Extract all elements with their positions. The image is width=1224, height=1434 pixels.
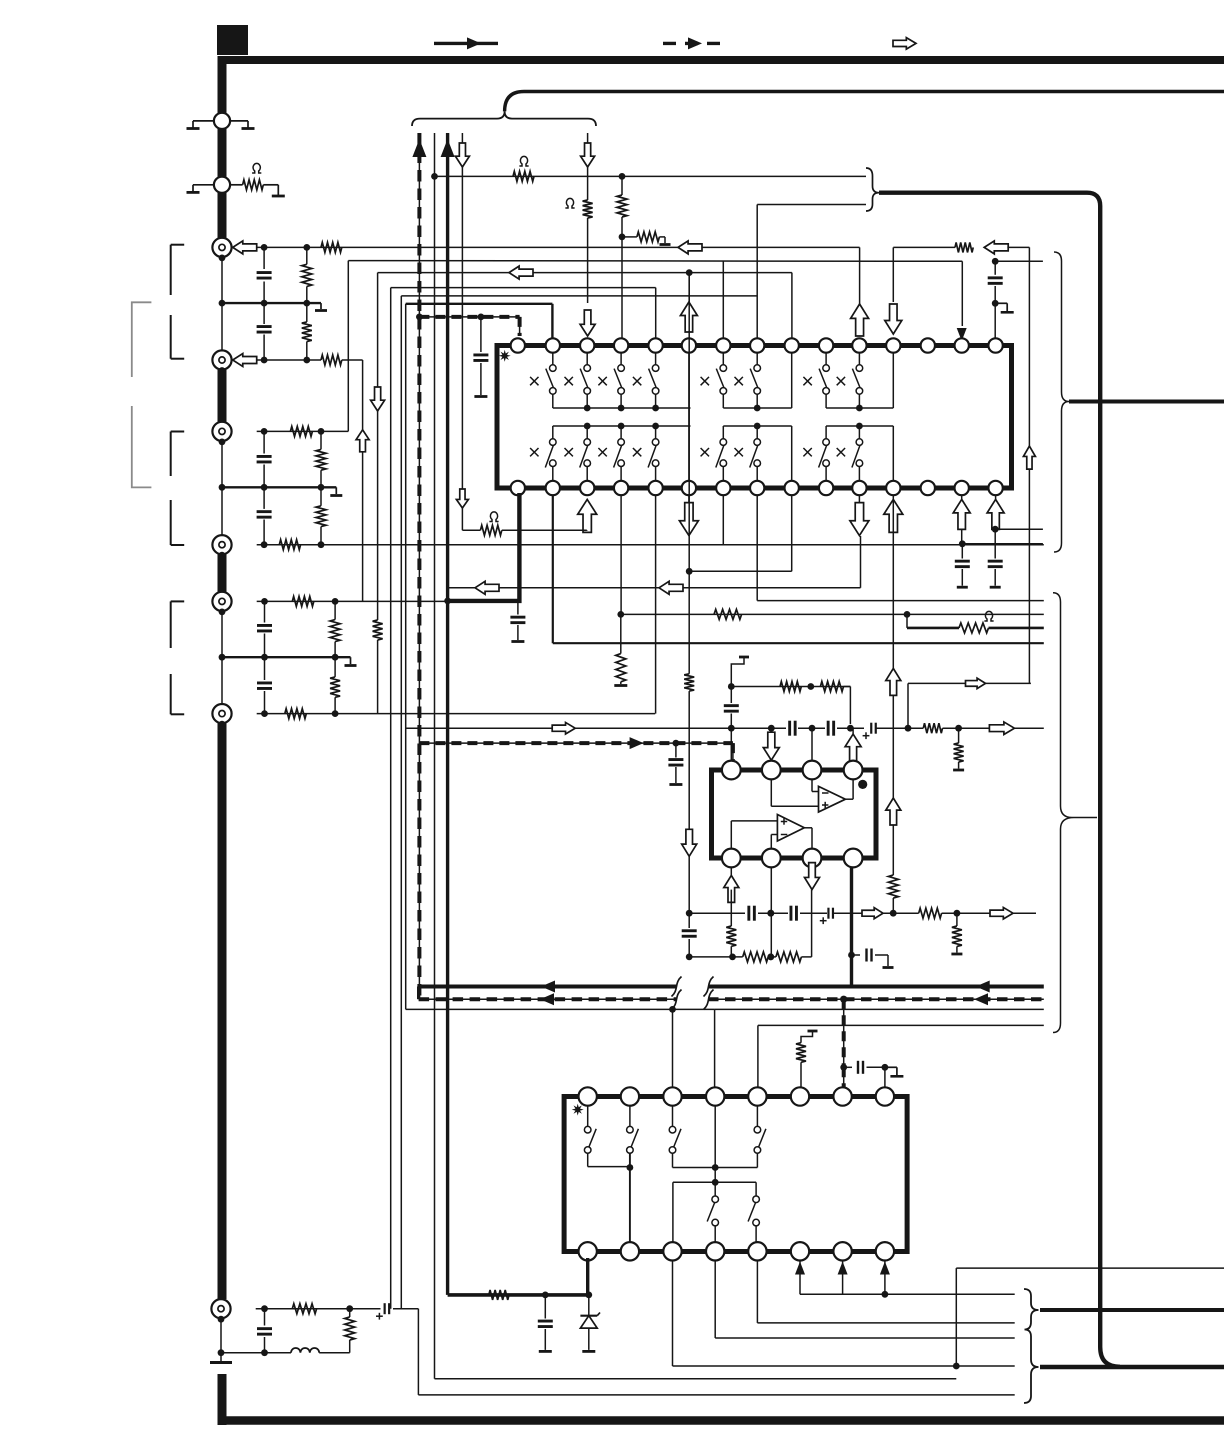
- node J1a: [261, 244, 268, 251]
- brace row pair: [866, 168, 879, 211]
- wire pad-bus link E: [221, 657, 223, 705]
- wire brace to top right: [505, 92, 1224, 112]
- op-amp A1: [819, 786, 846, 812]
- resistor R28 (pin1 chain): [726, 890, 736, 957]
- ground step CD: [330, 487, 342, 495]
- resistor R33 (x689): [684, 674, 694, 913]
- op-amp A1 wiring: [771, 779, 853, 806]
- arrow down U2 pin3 bottom: [805, 863, 820, 890]
- arrow up x893 a: [886, 668, 901, 695]
- capacitor C4: [257, 487, 272, 544]
- legend hollow signal arrow: [893, 38, 916, 50]
- wire row y728: [406, 727, 786, 729]
- arrow down below U1 pin11: [850, 495, 869, 536]
- resistor R21 (pin4 shunt): [614, 614, 627, 685]
- wire thick row y627 with resistor: [907, 614, 1044, 628]
- wire y261 tail: [995, 260, 1043, 262]
- arrow left y588 a: [475, 581, 499, 594]
- U1 group2 bottom rail: [723, 423, 791, 481]
- arrow up below U1 pin12: [884, 499, 903, 532]
- bus dashed drop to U3: [840, 999, 847, 1089]
- capacitor C14 (row y728): [828, 721, 834, 736]
- wire U2 pin1 link: [730, 728, 732, 760]
- resistor R5 (J2 series): [321, 355, 342, 365]
- wire U3 pin7 bottom: [838, 1261, 848, 1295]
- wire U1 pin8 bottom row y588: [448, 495, 861, 601]
- node y261 pin15 branch: [992, 258, 999, 265]
- IC U1 star mark: [499, 350, 511, 362]
- capacitor C18: [749, 906, 755, 921]
- capacitor C1: [257, 247, 272, 303]
- bus break marks dashed: [672, 990, 714, 1010]
- ground step pin15: [995, 303, 1014, 312]
- wire row y728 tail: [943, 725, 1044, 732]
- resistor R22 (row y627): [959, 623, 989, 633]
- resistor R25 (shunt right of U2): [953, 728, 964, 770]
- arrow left y247: [984, 241, 1008, 254]
- wire riser x401: [400, 296, 402, 1309]
- wire row y295: [401, 295, 757, 297]
- connector J4: [212, 535, 231, 558]
- arrow right y913 a: [862, 908, 883, 919]
- IC U1 top pins: [511, 338, 1003, 352]
- node row728 pin2: [768, 725, 775, 732]
- U1 switch group2 top: [701, 353, 761, 408]
- wire U1 pin15 bottom: [987, 495, 1004, 533]
- resistor R36 (J7 series): [292, 1304, 316, 1314]
- wire U3 pin6 bottom: [795, 1261, 805, 1295]
- frame left rail bottom segment: [218, 1374, 227, 1425]
- wire riser x405: [405, 304, 407, 1010]
- arrow left y272: [509, 266, 533, 279]
- wire J1 branch to U1 pin11: [859, 247, 861, 304]
- U3 switch2 b: [748, 1182, 759, 1242]
- wire row y614: [621, 611, 1044, 618]
- arrow right y683: [966, 678, 986, 689]
- wire row y261: [348, 261, 962, 338]
- arrow down x462: [455, 143, 469, 508]
- IC U1 bottom pins: [511, 481, 1003, 495]
- wire J7 out: [393, 1309, 1015, 1395]
- capacitor C11: [988, 529, 1003, 587]
- frame left rail top segment: [218, 56, 227, 114]
- capacitor C23: [538, 1295, 553, 1352]
- bus dashed corner link: [417, 987, 420, 1000]
- resistor R30 (row y913 shunt): [951, 913, 962, 954]
- arrow on dashed vertical: [412, 139, 426, 157]
- resistor R37: [345, 1309, 355, 1353]
- capacitor C8 (dashed branch): [473, 317, 488, 397]
- wire row y956: [686, 954, 743, 961]
- wire row y913 e: [942, 910, 1036, 917]
- resistor R6 (J3 series): [290, 426, 312, 436]
- capacitor C21 (x689 link): [682, 913, 697, 957]
- arrow up U2 pin4: [845, 728, 861, 762]
- resistor R4: [302, 303, 312, 360]
- wire U1 pin4 bottom: [617, 495, 624, 618]
- resistor R11: [330, 601, 340, 657]
- capacitor C15 polarized: [863, 723, 876, 739]
- wire U1 pin6 riser: [688, 273, 690, 302]
- wire row y1294 thin: [800, 1291, 1015, 1298]
- arrow up x1029: [1023, 446, 1035, 469]
- resistor R2 (J1 series): [321, 242, 342, 252]
- ground right of P1: [230, 121, 255, 129]
- node row728 pin1: [728, 725, 735, 732]
- U1 switch group1 bottom: [530, 426, 659, 481]
- connector J3: [212, 422, 231, 446]
- U1 pin6 through wire: [688, 353, 690, 481]
- wire J7 row: [256, 1305, 381, 1312]
- arrow down x689: [682, 829, 697, 856]
- wire U3 pin5 bottom: [757, 1261, 1014, 1323]
- wire row y913 b: [758, 910, 788, 917]
- brace right group2: [1053, 593, 1097, 1033]
- frame left rail segment B-C: [218, 370, 227, 422]
- arrow down below U1 pin6: [679, 495, 698, 536]
- label ohm R22: [984, 611, 993, 621]
- wire row y247 right segment: [893, 242, 973, 252]
- U3 switch2 a: [707, 1182, 718, 1242]
- wire thick right mid: [1069, 400, 1224, 404]
- capacitor C6: [257, 657, 272, 713]
- wire row y1378 tail: [435, 1378, 957, 1380]
- wire x908 riser: [908, 683, 1031, 728]
- ground bus CD: [219, 484, 337, 491]
- wire J7 lower bus b: [319, 1352, 350, 1354]
- wire net C riser: [347, 261, 349, 432]
- bracket group2: [171, 432, 185, 546]
- frame left rail segment 2: [218, 128, 227, 178]
- resistor R35 (thick row): [489, 1290, 509, 1300]
- bus thick row y1367: [1040, 1365, 1224, 1369]
- wire U2 pin2 bottom: [767, 867, 774, 960]
- capacitor C9 (pin1 drop): [510, 601, 525, 642]
- node row728 pin4: [847, 725, 854, 732]
- resistor R1 (pad P2 to ground): [230, 180, 285, 196]
- arrow right y913 b: [990, 907, 1013, 919]
- arrow down into U1 pin3: [580, 310, 595, 336]
- label ohm R16: [565, 198, 574, 208]
- wire pin3 feedback: [811, 890, 813, 957]
- U1 group1 bottom rail: [553, 423, 691, 430]
- wire row y529: [995, 528, 1043, 530]
- resistor R20 (row y614): [714, 609, 742, 619]
- U1 group1 rail: [553, 405, 691, 412]
- wire J1 stem: [221, 258, 223, 303]
- resistor R23 (x893 chain): [888, 875, 898, 913]
- ground left of P2: [187, 185, 215, 193]
- arrow on thick vertical: [441, 139, 455, 157]
- U1 group3 rail: [826, 353, 893, 412]
- ground step AB: [315, 303, 327, 310]
- arrow into J2: [233, 354, 257, 367]
- resistor R18 (to ground): [622, 232, 671, 245]
- arrow down x587: [581, 143, 595, 167]
- wire U3 pin3 bottom: [673, 1261, 1015, 1370]
- arrow up into row y247: [851, 304, 869, 336]
- wire U3 pin4 bottom: [715, 1261, 1015, 1339]
- wire J3 stem: [221, 442, 223, 487]
- resistor R16 (x587 vertical): [583, 200, 593, 303]
- wire U1 pin12 bottom chain: [892, 495, 894, 875]
- capacitor C7 (pin15 top): [988, 261, 1003, 338]
- legend solid signal arrow: [434, 37, 498, 49]
- connector J7: [211, 1299, 230, 1323]
- capacitor C24 polarized: [376, 1303, 389, 1319]
- resistor R15 (row y176): [513, 171, 534, 181]
- wire row y1009: [406, 1006, 715, 1013]
- label ohm R15: [519, 156, 528, 166]
- connector J6: [212, 704, 231, 727]
- U3 switch pin2: [627, 1106, 639, 1154]
- IC U3 box: [564, 1097, 907, 1252]
- wire U1 pin7 bottom to J4 row: [722, 495, 724, 545]
- wire riser x390: [390, 288, 392, 1309]
- wire J7 stem: [218, 1319, 225, 1361]
- IC U3 star mark: [572, 1104, 584, 1116]
- arrow up below U1 pin3: [578, 499, 597, 532]
- U1 switch group1 top: [530, 353, 659, 408]
- arrow down U2 pin2: [763, 728, 779, 760]
- U3 rail1b: [673, 1164, 758, 1171]
- resistor R10 (J5 series): [292, 596, 314, 606]
- wire U2 pin3 link: [811, 728, 813, 760]
- pad P1: [214, 113, 230, 129]
- brace bottom group: [1024, 1289, 1039, 1403]
- IC U1 box: [497, 346, 1012, 489]
- arrow up U2 pin1 bottom: [724, 867, 739, 902]
- connector J1: [212, 238, 231, 262]
- wire U3 pin5 feed: [757, 1025, 759, 1089]
- wire J4 row: [257, 541, 1044, 548]
- frame black square marker: [217, 25, 248, 55]
- wire J6 row: [257, 710, 656, 717]
- chassis ground J7: [210, 1361, 232, 1364]
- wire row y1009 tail: [715, 1008, 1044, 1010]
- U3 switch pin1: [584, 1106, 596, 1167]
- bracket group3: [171, 601, 185, 714]
- IC U3 bottom pins: [579, 1242, 895, 1260]
- ground step EF: [345, 657, 357, 665]
- bus dashed left-arrow row: [419, 993, 1044, 1005]
- arrow up into row y272: [680, 302, 697, 332]
- bus thick left-arrow row: [419, 981, 1044, 993]
- wire J2 out: [342, 360, 363, 601]
- wire J3 row: [257, 428, 349, 435]
- resistor R31: [743, 952, 769, 962]
- U1 switch group3 bottom: [803, 426, 862, 481]
- wire row y600: [757, 600, 1044, 602]
- wire row y272: [378, 269, 792, 276]
- wire row y913 d: [834, 910, 919, 917]
- node thick row: [542, 1292, 549, 1299]
- ground bus AB: [219, 300, 321, 307]
- wire U3 pin4 feed: [714, 1009, 716, 1089]
- capacitor C3: [257, 431, 272, 487]
- bus dashed vertical: [418, 133, 420, 999]
- wire J1 row: [257, 246, 860, 248]
- wire y247 corner down x1029: [1007, 247, 1029, 683]
- frame bottom bar: [218, 1416, 1224, 1425]
- arrow left on J1 row: [678, 241, 702, 254]
- resistor R9 (J4 series): [279, 540, 300, 550]
- U3 switch pin5: [754, 1106, 766, 1168]
- capacitor C5: [257, 601, 272, 657]
- wire J5 row: [257, 598, 447, 605]
- resistor R8: [316, 487, 326, 544]
- node row728 pin3: [809, 725, 816, 732]
- ground hook above U2: [731, 657, 749, 687]
- resistor R34 (U3 pin6 feed): [796, 1031, 818, 1089]
- capacitor C20 polarized: [820, 908, 833, 924]
- connector J2: [212, 350, 231, 374]
- resistor R32: [776, 952, 802, 962]
- U3 rail1a: [588, 1164, 634, 1171]
- wire net F riser: [377, 273, 379, 620]
- wire row y956 c: [801, 956, 811, 958]
- U3 pin4 through: [712, 1106, 719, 1186]
- label ohm R1: [252, 163, 261, 173]
- IC U2 bottom pins: [722, 849, 863, 868]
- frame left rail segment D-E: [218, 554, 227, 592]
- bus dashed row y316 to U1 pin1: [416, 314, 520, 337]
- wire y261 to U1 pin14: [957, 261, 967, 341]
- wire pad-bus link A: [221, 303, 223, 352]
- bus thick U2 pin4 drop: [848, 867, 855, 987]
- arrow right y728: [552, 722, 575, 734]
- wire U1 pin14 bottom: [953, 495, 970, 547]
- op-amp A2 wiring: [731, 821, 812, 849]
- wire row y1268: [956, 1267, 1224, 1269]
- wire U3 pin8 feed: [884, 1067, 886, 1089]
- ground bus EF: [219, 654, 351, 661]
- ground step C22: [885, 1067, 904, 1076]
- bus thick row y1294: [448, 1293, 589, 1297]
- arrow right y728 out: [989, 722, 1014, 735]
- capacitor C19: [791, 906, 797, 921]
- frame top bar: [218, 56, 1224, 64]
- wire R27 corner: [844, 687, 851, 725]
- wire row y204 to U1 pin8: [757, 205, 866, 339]
- wire y272 to U1 pin9: [791, 273, 793, 338]
- wire row y913: [686, 910, 745, 917]
- wire row y176: [431, 173, 866, 180]
- bus break marks thick: [672, 977, 714, 997]
- wire thin vertical x587: [587, 133, 589, 200]
- wire U2 top RC row: [728, 683, 851, 690]
- arrow into J1: [233, 241, 257, 254]
- resistor R29 (row y913): [919, 908, 942, 918]
- bus dashed row y743: [419, 737, 733, 760]
- wire row y543: [961, 543, 1043, 545]
- capacitor C13 (row y728): [790, 721, 796, 736]
- U3 pin2 through: [629, 1153, 631, 1242]
- IC U2 pin1 dot mark: [858, 780, 867, 789]
- resistor R17 (x622 vertical): [617, 176, 627, 338]
- resistor R7: [316, 431, 326, 487]
- capacitor C10: [955, 544, 970, 587]
- wire J2 row: [257, 357, 321, 364]
- resistor R26: [780, 682, 801, 692]
- op-amp A2: [777, 815, 804, 842]
- label ohm R19: [489, 512, 498, 522]
- wire row y956 b: [767, 954, 776, 961]
- capacitor C12 (dashed branch): [668, 743, 683, 784]
- resistor R19 (deemphasis): [462, 525, 586, 535]
- wire row y728 right: [876, 725, 923, 732]
- pad P2: [214, 177, 230, 193]
- wire row y1025: [758, 1024, 1044, 1026]
- IC U3 top pins: [579, 1087, 895, 1105]
- bracket outer gray: [132, 302, 152, 487]
- wire U1 pin1 thick drop: [444, 493, 519, 604]
- wire row y287: [391, 288, 656, 338]
- resistor R13 (J6 series): [285, 709, 307, 719]
- wire thin vertical x462: [461, 133, 463, 530]
- wire pin6 to pin9 link: [689, 495, 792, 571]
- brace top bundle: [412, 111, 596, 126]
- resistor R3: [302, 247, 312, 303]
- zener D1: [580, 1295, 600, 1352]
- wire U3 pin8 bottom: [880, 1261, 890, 1295]
- resistor R24 (row y728): [923, 723, 942, 733]
- wire row y913 c: [800, 912, 827, 914]
- U1 switch group3 top: [803, 353, 862, 408]
- capacitor C17 (thick branch): [852, 949, 894, 968]
- IC U2 box: [712, 770, 877, 858]
- U3 rail2: [673, 1182, 756, 1242]
- wire x956 link: [955, 1268, 957, 1366]
- wire pin12 top feed: [885, 247, 902, 334]
- wire row y728 mid: [798, 727, 864, 729]
- legend dashed signal arrow: [663, 37, 724, 49]
- U3 switch pin3: [669, 1106, 681, 1168]
- resistor R12: [330, 657, 340, 713]
- wire pad-bus link C: [221, 487, 223, 536]
- wire x689 vertical: [686, 275, 693, 674]
- capacitor C2: [257, 303, 272, 360]
- wire thick y192 corner down x1100: [879, 193, 1120, 1367]
- node J1b: [303, 244, 310, 251]
- wire thick row y303 to U1 pin2: [406, 304, 553, 338]
- arrow up x893 b: [886, 798, 901, 825]
- wire U1 pin5 bottom to J6 row: [655, 495, 657, 714]
- arrow up on J2 out: [356, 430, 369, 452]
- wire U3 pin3 feed: [672, 1009, 674, 1089]
- arrow left y588 b: [659, 581, 683, 594]
- bracket group1: [171, 245, 185, 359]
- frame left rail segment 3: [218, 192, 227, 238]
- U1 switch group2 bottom: [701, 426, 761, 481]
- brace right group1: [1054, 252, 1069, 552]
- U1 group3 bottom rail: [826, 423, 893, 481]
- resistor R27: [820, 682, 843, 692]
- wire thin vertical x434: [434, 133, 436, 1379]
- frame left rail segment F-G: [218, 723, 227, 1299]
- connector J5: [212, 592, 231, 615]
- U1 group2 rail: [723, 353, 791, 412]
- capacitor C16 (U2 pin1 top): [724, 687, 739, 729]
- capacitor C25: [257, 1309, 272, 1356]
- ground left of P1: [187, 121, 215, 129]
- capacitor C22 (dashed RC): [844, 1061, 889, 1074]
- wire U1 pin2 bottom row: [553, 495, 1044, 643]
- resistor R14 (on F riser): [373, 620, 383, 714]
- bus thick row y1310: [1040, 1308, 1224, 1312]
- wire J5 stem: [221, 612, 223, 657]
- inductor L1: [291, 1348, 319, 1353]
